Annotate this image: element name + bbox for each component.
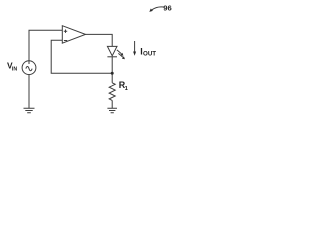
op-amp - input mark [64,40,67,42]
wire: V_IN bottom to ground [28,74,30,108]
current arrow I_OUT shaft [134,41,136,52]
sine wave inside source [26,67,32,71]
wire: LED cathode to node and resistor [111,57,113,83]
resistor R1 zigzag [109,83,115,101]
arrowhead of leader for 96 [149,9,153,12]
LED emission arrow 1 [117,50,125,59]
wire: feedback from node to inverting input [51,40,112,73]
junction node dot [111,72,114,75]
svg-text:1: 1 [125,86,129,92]
LED D1 diode triangle [107,46,117,55]
LED D1 cathode bar [107,56,117,58]
svg-text:96: 96 [163,4,171,13]
voltage source V_IN [22,61,36,75]
wire: V_IN top to op-amp non-inverting input [29,30,62,64]
ground (below source) [24,108,35,112]
op-amp U1 body [62,26,85,44]
wire: op-amp output to LED anode [86,34,113,46]
LED emission arrow 2 [118,53,123,57]
ground (below resistor) [107,108,117,112]
wire: resistor bottom to ground [111,100,113,108]
leader line for reference 96 [152,7,164,10]
svg-text:OUT: OUT [143,51,156,58]
svg-text:IN: IN [12,66,17,72]
op-amp + input mark [64,30,67,33]
current arrow I_OUT head [133,52,136,56]
